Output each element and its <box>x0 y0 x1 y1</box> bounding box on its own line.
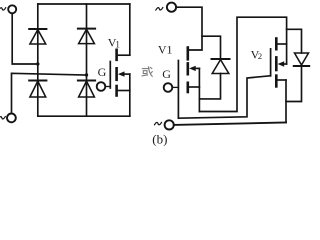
svg-text:G: G <box>162 67 171 81</box>
svg-text:(b): (b) <box>152 132 167 147</box>
svg-text:V1: V1 <box>158 42 173 56</box>
svg-text:G: G <box>98 65 107 79</box>
svg-text:1: 1 <box>115 40 120 50</box>
svg-text:2: 2 <box>258 51 262 61</box>
